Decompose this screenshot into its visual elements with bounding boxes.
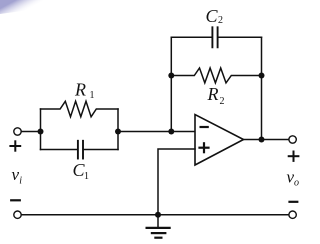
wire feedback left vertical <box>170 37 172 131</box>
label C2 <box>206 6 224 26</box>
terminal vo- <box>289 211 296 218</box>
node dot input <box>38 129 44 135</box>
capacitor C1 <box>41 141 119 159</box>
wire bottom rail <box>21 214 288 216</box>
svg-text:2: 2 <box>220 96 225 107</box>
label C1 <box>73 160 90 182</box>
label vi <box>12 165 23 187</box>
wire left vertical of R1C1 box <box>40 109 42 150</box>
terminal vo+ <box>289 136 296 143</box>
op-amp plus sign <box>200 143 209 152</box>
wire noninverting input to ground run <box>158 149 195 215</box>
wire op-amp output <box>244 139 289 141</box>
minus sign input terminal <box>11 199 20 201</box>
svg-text:R: R <box>207 84 219 104</box>
node dot R2 left <box>168 73 174 79</box>
svg-text:C: C <box>206 6 219 26</box>
svg-text:2: 2 <box>218 15 223 26</box>
svg-text:R: R <box>74 80 86 100</box>
plus sign output terminal <box>289 152 299 161</box>
minus sign output terminal <box>290 201 298 203</box>
op-amp minus sign <box>201 126 208 128</box>
label vo <box>287 168 300 189</box>
wire right vertical of R1C1 box <box>117 109 119 150</box>
scan corner shadow <box>0 0 104 14</box>
op-amp U1 <box>195 115 244 166</box>
svg-text:1: 1 <box>84 171 89 182</box>
wire feedback right vertical <box>261 37 263 139</box>
ground <box>147 215 170 238</box>
resistor R1 <box>41 101 119 117</box>
node dot R1C1 right <box>115 129 121 135</box>
svg-text:i: i <box>19 176 22 187</box>
node dot feedback junction <box>168 129 174 135</box>
capacitor C2 <box>171 27 261 47</box>
wire main line to op-amp inverting input <box>118 131 195 133</box>
label R1 <box>74 80 95 102</box>
node dot R2 right <box>259 73 265 79</box>
wire input to node A <box>21 131 40 133</box>
plus sign input terminal <box>10 141 20 150</box>
terminal vi+ <box>14 128 21 135</box>
svg-text:o: o <box>294 178 299 189</box>
node dot output <box>259 137 265 143</box>
svg-text:1: 1 <box>90 90 95 101</box>
terminal vi- <box>14 211 21 218</box>
resistor R2 <box>171 68 261 83</box>
node dot ground <box>155 212 161 218</box>
label R2 <box>207 84 225 107</box>
